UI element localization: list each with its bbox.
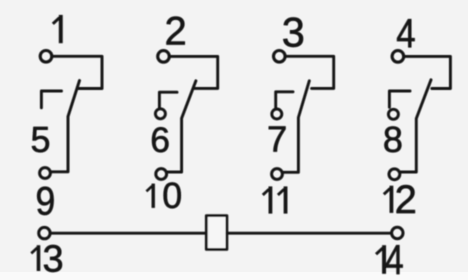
svg-text:2: 2 bbox=[165, 10, 187, 54]
label 12 bbox=[384, 186, 392, 213]
svg-text:7: 7 bbox=[267, 119, 287, 160]
label 13 bbox=[31, 245, 38, 271]
wire coil right bbox=[227, 232, 391, 235]
label 10 bbox=[146, 184, 153, 208]
switch arm pole 2 bbox=[167, 81, 196, 172]
wire coil left bbox=[51, 232, 206, 235]
wire pin2 NC contact bbox=[170, 56, 217, 88]
terminal circle pin 7 bbox=[272, 109, 282, 119]
label 14 bbox=[376, 245, 384, 274]
svg-text:0: 0 bbox=[162, 176, 182, 216]
label 11 bbox=[263, 186, 271, 213]
terminal circle pin 1 bbox=[40, 51, 52, 63]
terminal circle pin 3 bbox=[274, 51, 286, 63]
NO contact bracket pin 7 bbox=[276, 92, 293, 108]
terminal circle pin 2 bbox=[158, 51, 170, 63]
terminal circle pin 14 bbox=[392, 227, 403, 238]
wire pin1 NC contact bbox=[53, 56, 102, 88]
svg-text:3: 3 bbox=[282, 8, 305, 55]
svg-text:3: 3 bbox=[43, 238, 64, 280]
terminal circle pin 13 bbox=[39, 227, 50, 238]
svg-text:4: 4 bbox=[385, 238, 404, 280]
switch arm pole 3 bbox=[283, 81, 309, 173]
svg-text:8: 8 bbox=[383, 119, 403, 160]
NO contact bracket pin 8 bbox=[389, 91, 410, 107]
svg-text:2: 2 bbox=[395, 178, 417, 222]
terminal circle pin 6 bbox=[155, 109, 165, 119]
NO contact bracket pin 5 bbox=[41, 91, 61, 108]
terminal circle pin 12 bbox=[389, 169, 400, 180]
wire pin3 NC contact bbox=[286, 56, 334, 88]
svg-text:6: 6 bbox=[150, 120, 170, 160]
terminal circle pin 9 bbox=[40, 168, 51, 179]
terminal circle pin 4 bbox=[392, 51, 404, 63]
relay coil bbox=[206, 216, 227, 250]
terminal circle pin 10 bbox=[156, 169, 167, 180]
wire pin4 NC contact bbox=[405, 56, 451, 88]
switch arm pole 1 bbox=[52, 81, 80, 172]
NO contact bracket pin 6 bbox=[159, 92, 177, 107]
label 1 bbox=[53, 15, 61, 43]
switch arm pole 4 bbox=[401, 80, 431, 172]
terminal circle pin 11 bbox=[272, 169, 283, 180]
svg-text:5: 5 bbox=[31, 119, 51, 160]
terminal circle pin 8 bbox=[388, 109, 398, 119]
svg-text:9: 9 bbox=[36, 180, 56, 224]
